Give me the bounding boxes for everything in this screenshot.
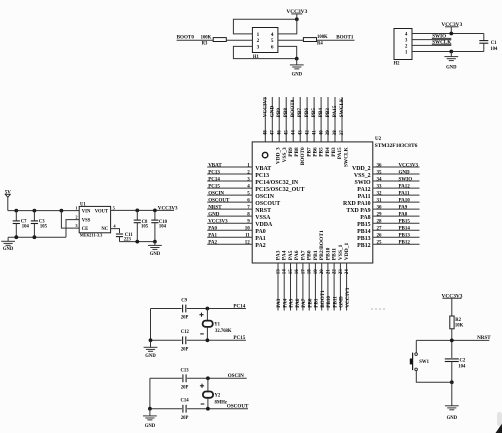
svg-text:SW1: SW1 — [419, 360, 429, 365]
svg-text:20P: 20P — [181, 386, 189, 391]
capacitor C9 value 20P — [181, 298, 189, 320]
svg-text:SWCLK: SWCLK — [343, 146, 349, 167]
wire U1 NC pin 4 to capacitor C11 — [111, 229, 120, 233]
svg-text:C13: C13 — [181, 368, 190, 373]
pin 40 PB4 (top) wire + labels — [318, 97, 331, 157]
wire H2 pin 3 net SWIO — [412, 38, 451, 39]
svg-text:PB15: PB15 — [357, 222, 370, 228]
svg-text:43: 43 — [298, 130, 303, 136]
svg-text:PB5: PB5 — [311, 108, 317, 118]
ground GND below H2 — [444, 52, 458, 71]
pin 29 PA8 (right) wire + labels — [360, 213, 419, 222]
svg-text:PA1: PA1 — [208, 234, 217, 239]
svg-text:GND: GND — [145, 424, 156, 429]
pin 23 VSS_1 (bottom) wire + labels — [338, 244, 345, 310]
pin 33 PA12 (right) wire + labels — [357, 185, 419, 194]
pin 12 PA2 (left) wire + labels — [207, 241, 266, 250]
pin 44 BOOT0 (top) wire + labels — [290, 97, 306, 165]
net label BOOT0 — [177, 35, 195, 41]
net label BOOT1 — [336, 35, 354, 41]
svg-text:10K: 10K — [455, 324, 464, 329]
pin 35 VSS_2 (right) wire + labels — [354, 170, 420, 179]
wire U1 VOUT pin 5 to VCC3V3 — [111, 209, 174, 211]
wire H1 pin 5 to resistor R4 — [278, 39, 304, 41]
svg-text:47: 47 — [271, 130, 276, 136]
pin 19 PB1 (bottom) wire + labels — [313, 250, 320, 310]
svg-text:OSCOUT: OSCOUT — [255, 201, 280, 207]
svg-text:GND: GND — [145, 354, 156, 359]
svg-text:R4: R4 — [317, 42, 323, 47]
svg-text:11: 11 — [245, 234, 250, 239]
wire VCC3V3 down to H1 pin 4 — [278, 19, 297, 34]
svg-text:PA6: PA6 — [295, 298, 301, 308]
junction Y2 rail/ground — [148, 407, 152, 411]
svg-text:VOUT: VOUT — [95, 210, 109, 215]
wire H1 pin 3 down-left bracket — [233, 46, 296, 58]
svg-text:33: 33 — [377, 185, 383, 190]
wire Y2 left rail — [149, 378, 151, 408]
svg-text:PB9: PB9 — [288, 147, 294, 157]
svg-text:GND: GND — [150, 252, 161, 257]
junction Y2 bottom — [206, 407, 210, 411]
capacitor C14 value 20P — [181, 399, 190, 421]
svg-text:PB13: PB13 — [357, 236, 370, 242]
svg-text:PC15/OSC32_OUT: PC15/OSC32_OUT — [255, 187, 304, 193]
svg-text:PB1: PB1 — [314, 298, 320, 308]
svg-text:PB6: PB6 — [313, 147, 319, 157]
pin 31 RXD PA10 (right) wire + labels — [343, 199, 419, 208]
pin 7 NRST (left) wire + labels — [207, 206, 271, 215]
pin 21 PB10 (bottom) wire + labels — [325, 247, 332, 310]
capacitor C2 value 104 — [445, 358, 466, 382]
svg-text:16: 16 — [295, 269, 300, 275]
svg-text:H2: H2 — [394, 61, 401, 66]
pin 4 PC15/OSC32_OUT (left) wire + labels — [207, 185, 304, 194]
svg-text:PA7: PA7 — [300, 250, 306, 260]
svg-text:20P: 20P — [181, 348, 189, 353]
svg-text:48: 48 — [264, 130, 269, 136]
svg-text:PA8: PA8 — [399, 213, 408, 218]
net label SWIO — [432, 34, 446, 40]
junction H1 ground — [295, 57, 299, 61]
svg-text:32: 32 — [377, 192, 383, 197]
resistor R3 value 100K — [201, 36, 227, 47]
svg-text:PA2: PA2 — [255, 243, 265, 249]
svg-text:STM32F103C8T6: STM32F103C8T6 — [375, 143, 418, 149]
svg-text:OSCIN: OSCIN — [208, 192, 224, 197]
svg-text:PB15: PB15 — [399, 220, 411, 225]
power VCC3V3 (top of H2) — [441, 22, 462, 34]
svg-text:VCC3V3: VCC3V3 — [208, 220, 228, 225]
net label PC14 — [233, 303, 245, 309]
svg-text:4: 4 — [271, 32, 274, 38]
svg-text:104: 104 — [159, 225, 167, 230]
pin 3 PC14/OSC32_IN (left) wire + labels — [207, 177, 299, 186]
svg-text:VSS: VSS — [82, 219, 91, 224]
net label OSCOUT — [227, 404, 249, 410]
svg-text:PB10: PB10 — [325, 247, 331, 260]
junction VCC3V3/H1 — [295, 17, 299, 21]
svg-text:PC13: PC13 — [255, 173, 269, 179]
pin 16 PA6 (bottom) wire + labels — [294, 250, 301, 310]
net label VCC3V3 (regulator output) — [158, 205, 178, 211]
svg-text:23: 23 — [339, 269, 344, 275]
wire 5V rail to U1 VIN — [8, 210, 79, 212]
pin 11 PA1 (left) wire + labels — [207, 234, 266, 243]
svg-text:R2: R2 — [455, 318, 461, 323]
svg-text:8MHz: 8MHz — [215, 400, 228, 405]
svg-text:2: 2 — [75, 215, 77, 220]
scan artifact faint dots mid-right — [371, 308, 385, 310]
svg-text:18: 18 — [308, 269, 313, 275]
junction C3 bottom — [33, 235, 37, 239]
svg-text:PC14/OSC32_IN: PC14/OSC32_IN — [255, 180, 299, 186]
pin 6 OSCOUT (left) wire + labels — [207, 199, 280, 208]
svg-text:PB7: PB7 — [306, 147, 312, 157]
svg-text:32.768K: 32.768K — [215, 329, 232, 334]
svg-text:CE: CE — [82, 227, 89, 232]
svg-text:PB11: PB11 — [332, 248, 338, 260]
svg-text:C9: C9 — [181, 298, 187, 303]
junction C10 top — [153, 209, 157, 213]
svg-text:VDD_2: VDD_2 — [352, 166, 371, 172]
junction NRST node — [450, 339, 454, 343]
wire H2 pin 4 to VCC3V3 / C1 — [412, 33, 484, 35]
capacitor C12 value 20P — [181, 330, 190, 353]
ground GND reset — [445, 406, 459, 421]
net label SWCLK — [432, 40, 451, 46]
svg-text:PA0: PA0 — [255, 229, 265, 235]
pin 18 PB0 (bottom) wire + labels — [307, 250, 314, 310]
svg-text:2: 2 — [257, 38, 260, 44]
junction C7 bottom — [14, 235, 18, 239]
power VCC3V3 (top of H1) — [286, 9, 307, 19]
svg-text:PA8: PA8 — [360, 215, 370, 221]
wire VIN rail to U1 CE pin 3 — [61, 211, 79, 229]
svg-text:44: 44 — [291, 130, 296, 136]
svg-text:PC15: PC15 — [233, 335, 245, 341]
svg-text:36: 36 — [377, 163, 383, 168]
svg-text:OSCOUT: OSCOUT — [227, 404, 249, 410]
svg-text:20P: 20P — [181, 416, 189, 421]
svg-text:100K: 100K — [201, 36, 212, 41]
junction C8 top — [135, 209, 139, 213]
svg-text:42: 42 — [305, 130, 310, 136]
pin 5 OSCIN (left) wire + labels — [207, 192, 275, 201]
svg-text:1: 1 — [257, 32, 260, 38]
wire OSCIN net (crystal Y2 top) — [150, 377, 247, 379]
pin 8 VSSA (left) wire + labels — [207, 213, 271, 222]
capacitor C8 value 105 — [134, 210, 149, 241]
svg-text:PB11: PB11 — [332, 296, 338, 308]
svg-text:105: 105 — [141, 225, 149, 230]
svg-text:VCC3V3: VCC3V3 — [262, 97, 268, 118]
junction Y1 bottom — [206, 338, 210, 342]
wire switch branch left/down — [416, 340, 452, 382]
junction U1 CE tie — [60, 209, 64, 213]
wire H1 pin 1 up-left bracket to VCC3V3 — [233, 19, 296, 34]
junction C10 bottom — [153, 240, 157, 244]
svg-text:38: 38 — [333, 130, 338, 136]
wire R4 to net BOOT1 — [317, 39, 355, 41]
power VCC3V3 (reset pullup) — [442, 293, 463, 316]
ground GND regulator output — [148, 242, 162, 257]
junction C3 top — [33, 209, 37, 213]
svg-text:6: 6 — [271, 45, 274, 51]
svg-text:13: 13 — [276, 269, 281, 275]
svg-text:21: 21 — [326, 269, 331, 275]
svg-text:VBAT: VBAT — [208, 163, 222, 168]
svg-text:NRST: NRST — [208, 206, 222, 211]
svg-text:PA6: PA6 — [294, 250, 300, 260]
svg-text:GND: GND — [269, 106, 275, 118]
svg-text:OSCOUT: OSCOUT — [208, 199, 230, 204]
ground GND below H1 — [290, 59, 304, 78]
capacitor C3 value 105 — [31, 211, 48, 238]
svg-text:22: 22 — [333, 269, 338, 275]
svg-text:PC14: PC14 — [208, 177, 220, 182]
svg-text:GND: GND — [208, 213, 220, 218]
scan artifact bottom-right corner — [496, 412, 502, 433]
voltage regulator U1 ME6211-3.3 — [75, 203, 116, 238]
svg-text:104: 104 — [458, 365, 466, 370]
svg-text:25: 25 — [377, 241, 383, 246]
resistor R2 value 10K — [450, 316, 464, 329]
svg-text:PB3: PB3 — [325, 108, 331, 118]
svg-text:GND: GND — [399, 170, 411, 175]
svg-text:26: 26 — [377, 234, 383, 239]
svg-text:45: 45 — [284, 130, 289, 136]
svg-text:PB13: PB13 — [399, 234, 411, 239]
svg-text:PB0: PB0 — [307, 298, 313, 308]
svg-text:TXD PA9: TXD PA9 — [346, 208, 370, 214]
pin 37 SWCLK (top) wire + labels — [339, 97, 349, 167]
capacitor C13 value 20P — [181, 368, 190, 390]
svg-text:PA7: PA7 — [301, 298, 307, 308]
svg-text:PA11: PA11 — [399, 192, 411, 197]
wire H2 pin 2 net SWCLK — [412, 44, 451, 45]
capacitor C11 value 223 — [116, 233, 133, 243]
svg-text:PA3: PA3 — [275, 250, 281, 260]
wire right ground rail — [120, 241, 155, 243]
svg-text:VCC3V3: VCC3V3 — [158, 205, 178, 211]
svg-text:GND: GND — [3, 247, 14, 252]
switch SW1 push button — [410, 353, 430, 371]
pin 34 SWIO (right) wire + labels — [355, 177, 420, 186]
svg-text:R3: R3 — [202, 41, 208, 46]
svg-text:34: 34 — [377, 177, 383, 182]
svg-text:39: 39 — [326, 130, 331, 136]
svg-text:U1: U1 — [80, 203, 86, 208]
svg-text:PB12: PB12 — [357, 243, 370, 249]
svg-text:PA0: PA0 — [208, 227, 217, 232]
svg-text:PA2: PA2 — [208, 241, 217, 246]
wire R2 to NRST node — [451, 329, 453, 358]
svg-text:PB14: PB14 — [399, 227, 411, 232]
pin 27 PB14 (right) wire + labels — [357, 227, 419, 236]
svg-text:BOOT1: BOOT1 — [320, 290, 326, 308]
pin 36 VDD_2 (right) wire + labels — [352, 163, 420, 172]
svg-text:5: 5 — [271, 38, 274, 44]
pin 46 PB9 (top) wire + labels — [276, 97, 294, 157]
svg-text:RXD PA10: RXD PA10 — [343, 201, 371, 207]
connector H1 6-pin header — [252, 28, 278, 60]
junction Y1 top — [206, 307, 210, 311]
svg-text:PB12: PB12 — [399, 241, 411, 246]
svg-text:C1: C1 — [491, 41, 497, 46]
svg-text:PA5: PA5 — [288, 250, 294, 260]
svg-text:SWCLK: SWCLK — [432, 40, 451, 46]
svg-text:GND: GND — [339, 296, 345, 308]
pin 48 VDD_3 (top) wire + labels — [262, 97, 281, 164]
svg-text:PA1: PA1 — [255, 236, 265, 242]
pin 13 PA3 (bottom) wire + labels — [275, 250, 282, 310]
svg-text:PB5: PB5 — [319, 147, 325, 157]
svg-text:29: 29 — [377, 213, 383, 218]
wire R3 to H1 pin 2 — [226, 39, 252, 41]
svg-text:VBAT: VBAT — [255, 166, 271, 172]
net label OSCIN — [228, 373, 244, 379]
net label PC15 — [233, 335, 245, 341]
svg-text:40: 40 — [319, 130, 324, 136]
svg-text:VSS_3: VSS_3 — [282, 147, 288, 162]
junction Y2 top — [206, 376, 210, 380]
svg-text:PA3: PA3 — [276, 298, 282, 308]
svg-text:10: 10 — [245, 227, 251, 232]
svg-text:37: 37 — [340, 130, 345, 136]
svg-text:PA15: PA15 — [337, 147, 343, 159]
pin 47 VSS_3 (top) wire + labels — [269, 97, 288, 162]
svg-text:31: 31 — [377, 199, 383, 204]
capacitor C1 value 104 — [479, 34, 498, 53]
svg-text:PB4: PB4 — [325, 147, 331, 157]
svg-text:SWIO: SWIO — [399, 177, 413, 182]
svg-text:PA9: PA9 — [399, 206, 408, 211]
svg-text:PB8: PB8 — [294, 147, 300, 157]
junction H2 VCC — [449, 32, 453, 36]
svg-text:PB2/BOOT1: PB2/BOOT1 — [319, 230, 325, 260]
svg-text:20: 20 — [320, 269, 325, 275]
crystal Y2 value 8MHz — [200, 378, 227, 408]
pin 38 PA15 (top) wire + labels — [332, 97, 343, 159]
svg-text:PB14: PB14 — [357, 229, 370, 235]
capacitor C10 value 104 — [151, 210, 167, 241]
svg-text:VDDA: VDDA — [255, 222, 273, 228]
svg-text:1: 1 — [75, 206, 77, 211]
svg-text:12: 12 — [245, 241, 251, 246]
svg-text:104: 104 — [490, 47, 498, 52]
junction Y1 rail/ground — [149, 338, 153, 342]
connector H2 4-pin header — [394, 29, 413, 67]
svg-text:C2: C2 — [460, 358, 466, 363]
power 5V input port — [5, 190, 12, 210]
pin 45 PB8 (top) wire + labels — [283, 97, 300, 157]
wire left ground rail — [8, 236, 66, 238]
svg-text:BOOT1: BOOT1 — [336, 35, 354, 41]
svg-text:Y1: Y1 — [214, 322, 220, 327]
svg-text:PA15: PA15 — [332, 105, 338, 117]
svg-text:C12: C12 — [181, 330, 190, 335]
svg-text:PC14: PC14 — [233, 303, 245, 309]
svg-text:BOOT0: BOOT0 — [300, 147, 306, 165]
wire H1 pin 6 to ground rail — [278, 46, 297, 58]
resistor R4 value 100K — [303, 35, 328, 47]
svg-text:VCC3V3: VCC3V3 — [345, 287, 351, 308]
pin 43 PB7 (top) wire + labels — [297, 97, 312, 157]
svg-text:105: 105 — [40, 224, 48, 229]
svg-text:PC15: PC15 — [208, 185, 220, 190]
pin 15 PA5 (bottom) wire + labels — [288, 250, 295, 310]
svg-text:17: 17 — [301, 269, 306, 275]
wire Y1 left rail — [150, 309, 152, 341]
svg-text:30: 30 — [377, 206, 383, 211]
crystal Y1 value 32.768K — [199, 309, 231, 341]
svg-text:OSCIN: OSCIN — [255, 194, 274, 200]
svg-text:104: 104 — [22, 224, 30, 229]
svg-text:PA10: PA10 — [399, 199, 411, 204]
svg-text:BOOT0: BOOT0 — [177, 35, 195, 41]
svg-text:Y2: Y2 — [215, 393, 221, 398]
wire down to ground — [451, 382, 453, 406]
svg-text:PB4: PB4 — [318, 108, 324, 118]
svg-text:GND: GND — [446, 65, 457, 70]
pin 2 PC13 (left) wire + labels — [207, 170, 269, 179]
wire NRST horizontal — [416, 339, 489, 341]
svg-text:PA4: PA4 — [282, 250, 288, 260]
svg-text:OSCIN: OSCIN — [228, 373, 244, 379]
pin 20 PB2/BOOT1 (bottom) wire + labels — [319, 230, 326, 310]
svg-text:PA12: PA12 — [357, 187, 370, 193]
IC U2 STM32F103C8T6 body — [252, 137, 417, 263]
pin 9 VDDA (left) wire + labels — [207, 220, 273, 229]
pin 10 PA0 (left) wire + labels — [207, 227, 266, 236]
wire H2 pin 1 to ground / C1 bottom — [412, 51, 484, 53]
wire U1 VSS pin 2 to ground rail — [66, 220, 79, 238]
svg-text:VSS_2: VSS_2 — [354, 173, 371, 179]
svg-text:24: 24 — [345, 269, 350, 275]
svg-text:100K: 100K — [317, 35, 328, 40]
junction C7 top — [14, 209, 18, 213]
ground GND crystal Y1 — [144, 340, 158, 359]
wire PC15 net (crystal Y1 bottom) — [151, 339, 246, 341]
svg-text:PC13: PC13 — [208, 170, 220, 175]
pin 24 VDD_1 (bottom) wire + labels — [344, 243, 351, 311]
svg-text:SWCLK: SWCLK — [339, 98, 345, 117]
wire PC14 net (crystal Y1 top) — [151, 308, 246, 310]
junction switch/C2 bottom — [450, 380, 454, 384]
pin 14 PA4 (bottom) wire + labels — [282, 250, 289, 310]
svg-text:C14: C14 — [181, 399, 190, 404]
svg-text:PB7: PB7 — [297, 108, 303, 118]
svg-text:PB0: PB0 — [307, 250, 313, 260]
svg-text:PB9: PB9 — [276, 108, 282, 118]
svg-text:GND: GND — [447, 416, 458, 421]
pin 32 PA11 (right) wire + labels — [358, 192, 420, 201]
svg-text:PA12: PA12 — [399, 185, 411, 190]
svg-text:U2: U2 — [375, 137, 382, 142]
pin 41 PB5 (top) wire + labels — [311, 97, 325, 157]
pin 1 VBAT (left) wire + labels — [207, 163, 271, 172]
svg-text:28: 28 — [377, 220, 383, 225]
svg-text:SWIO: SWIO — [355, 180, 371, 186]
svg-text:PA5: PA5 — [289, 298, 295, 308]
pin 30 TXD PA9 (right) wire + labels — [346, 206, 419, 215]
svg-text:VDD_1: VDD_1 — [344, 243, 350, 261]
wire OSCOUT net (crystal Y2 bottom) — [150, 408, 248, 410]
svg-text:20P: 20P — [181, 316, 189, 321]
junction C8 bottom — [135, 240, 139, 244]
junction H2 ground — [449, 50, 453, 54]
